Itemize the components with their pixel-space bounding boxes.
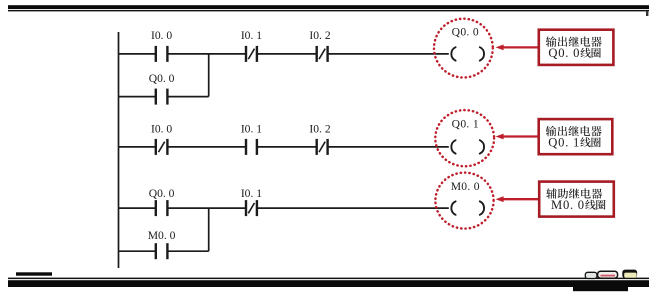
svg-text:Q0. 1: Q0. 1 bbox=[452, 117, 479, 130]
svg-text:M0. 0: M0. 0 bbox=[451, 180, 480, 193]
svg-text:M0. 0: M0. 0 bbox=[551, 198, 585, 212]
svg-text:I0. 0: I0. 0 bbox=[151, 29, 172, 42]
svg-text:I0. 1: I0. 1 bbox=[241, 187, 262, 200]
svg-text:I0. 1: I0. 1 bbox=[241, 122, 262, 135]
svg-text:I0. 1: I0. 1 bbox=[241, 29, 262, 42]
svg-text:M0. 0: M0. 0 bbox=[148, 229, 176, 242]
svg-text:Q0. 0: Q0. 0 bbox=[452, 26, 479, 39]
svg-text:Q0. 0: Q0. 0 bbox=[548, 46, 580, 60]
svg-text:Q0. 1: Q0. 1 bbox=[548, 135, 580, 149]
svg-text:Q0. 0: Q0. 0 bbox=[149, 72, 175, 85]
svg-text:I0. 2: I0. 2 bbox=[309, 122, 330, 135]
svg-text:I0. 2: I0. 2 bbox=[309, 29, 330, 42]
svg-text:I0. 0: I0. 0 bbox=[151, 122, 172, 135]
svg-text:Q0. 0: Q0. 0 bbox=[149, 187, 175, 200]
